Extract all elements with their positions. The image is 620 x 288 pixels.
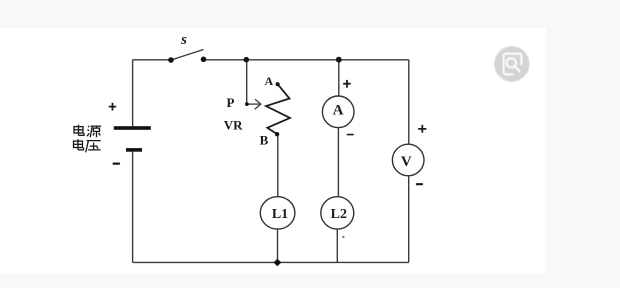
svg-text:s: s <box>180 32 187 48</box>
wire: lamp L2 to bottom wire <box>336 229 338 262</box>
terminal A dot <box>276 82 280 86</box>
lamp L1 circle <box>260 197 295 229</box>
battery negative plate (short) <box>126 148 142 152</box>
label 电源 (power source, drawn glyphs) <box>74 125 101 138</box>
voltmeter V circle <box>392 144 424 176</box>
svg-text:VR: VR <box>224 118 243 133</box>
label - (battery) <box>113 163 121 165</box>
wire: lamp L1 to bottom wire <box>277 229 279 262</box>
wiper P end dot <box>245 102 249 106</box>
wire: ammeter to lamp L2 <box>337 128 339 197</box>
wire: P-branch vertical drop from top wire <box>246 60 248 104</box>
node: bottom junction dot (diamond) <box>274 259 282 267</box>
stray dot (scan speck) <box>342 236 344 238</box>
switch S left contact dot <box>168 57 174 63</box>
rheostat VR zigzag body <box>266 84 290 134</box>
label 电压 (voltage, drawn glyphs) <box>74 139 101 152</box>
wire: bottom (battery to bottom-right corner) <box>133 261 409 263</box>
svg-text:V: V <box>401 154 412 170</box>
label - (voltmeter) <box>416 183 423 185</box>
switch S blade <box>171 50 204 61</box>
svg-text:P: P <box>227 95 235 110</box>
wiper P arrow <box>249 99 261 109</box>
wire: left vertical bottom (battery - plate to bottom wire) <box>132 152 134 263</box>
svg-text:L1: L1 <box>272 207 288 222</box>
wire: right vertical top (top-right corner to voltmeter) <box>408 60 410 145</box>
svg-text:L2: L2 <box>331 207 347 222</box>
node: A-branch junction dot on top wire <box>336 57 342 63</box>
switch S right contact dot <box>201 57 207 63</box>
wire: terminal B to lamp L1 <box>277 136 279 197</box>
node: P-branch junction dot on top wire <box>244 57 250 63</box>
watermark icon (gray badge with magnifier) <box>494 46 529 81</box>
wire: left vertical top (top wire to battery + plate) <box>132 60 134 127</box>
label - (ammeter) <box>347 134 354 136</box>
lamp L2 circle <box>321 197 354 229</box>
label + (voltmeter) <box>418 125 426 133</box>
battery positive plate (long) <box>114 126 151 130</box>
ammeter A circle <box>322 96 354 128</box>
label + (ammeter) <box>343 80 351 88</box>
wire: top segment (switch right contact to top-right corner) <box>204 59 409 61</box>
wire: right vertical bottom (voltmeter to bottom wire) <box>408 177 410 263</box>
label + (battery) <box>109 103 116 111</box>
svg-text:A: A <box>333 102 344 118</box>
terminal B dot <box>275 132 279 136</box>
wire: top left segment (battery top to switch left contact) <box>133 59 172 61</box>
svg-text:A: A <box>264 74 273 88</box>
svg-text:B: B <box>260 133 269 148</box>
wire: A-branch vertical (top wire to ammeter) <box>338 60 340 96</box>
